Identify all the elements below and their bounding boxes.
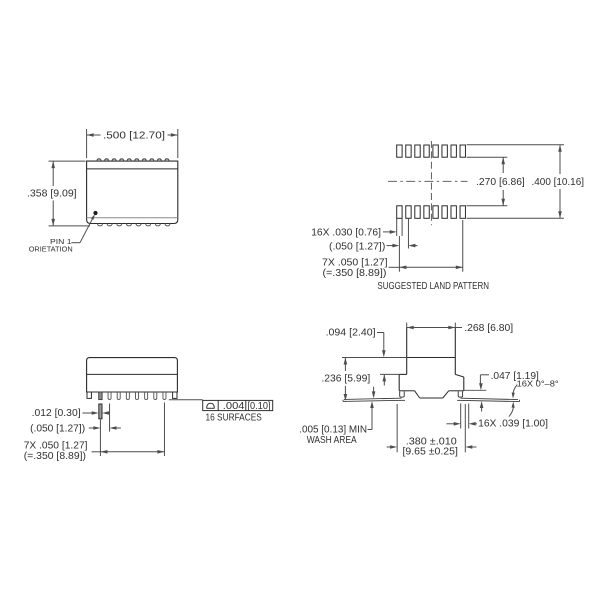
svg-text:16 SURFACES: 16 SURFACES <box>206 413 263 424</box>
svg-text:.358 [9.09]: .358 [9.09] <box>27 187 77 199</box>
svg-text:16X .030 [0.76]: 16X .030 [0.76] <box>311 227 381 239</box>
svg-text:(.050 [1.27]): (.050 [1.27]) <box>329 240 385 252</box>
svg-text:16X 0°–8°: 16X 0°–8° <box>517 379 559 388</box>
svg-text:.005 [0.13] MIN: .005 [0.13] MIN <box>299 425 367 436</box>
svg-text:.268 [6.80]: .268 [6.80] <box>464 322 513 334</box>
svg-text:.400 [10.16]: .400 [10.16] <box>532 176 585 188</box>
svg-text:.094 [2.40]: .094 [2.40] <box>326 327 376 339</box>
svg-text:SUGGESTED LAND PATTERN: SUGGESTED LAND PATTERN <box>377 280 489 292</box>
svg-text:16X .039 [1.00]: 16X .039 [1.00] <box>478 418 548 430</box>
svg-text:.004: .004 <box>223 401 245 412</box>
svg-text:[0.10]: [0.10] <box>248 401 271 412</box>
svg-text:[9.65 ±0.25]: [9.65 ±0.25] <box>403 446 458 458</box>
svg-text:(=.350 [8.89]): (=.350 [8.89]) <box>323 267 387 279</box>
svg-text:(=.350 [8.89]): (=.350 [8.89]) <box>24 450 86 462</box>
svg-text:.500 [12.70]: .500 [12.70] <box>103 130 165 142</box>
svg-text:.270 [6.86]: .270 [6.86] <box>476 176 525 188</box>
svg-text:ORIETATION: ORIETATION <box>29 245 73 254</box>
svg-text:.012 [0.30]: .012 [0.30] <box>32 407 81 419</box>
svg-text:WASH AREA: WASH AREA <box>307 435 357 446</box>
svg-text:.236 [5.99]: .236 [5.99] <box>321 373 370 385</box>
svg-text:(.050 [1.27]): (.050 [1.27]) <box>30 422 85 434</box>
